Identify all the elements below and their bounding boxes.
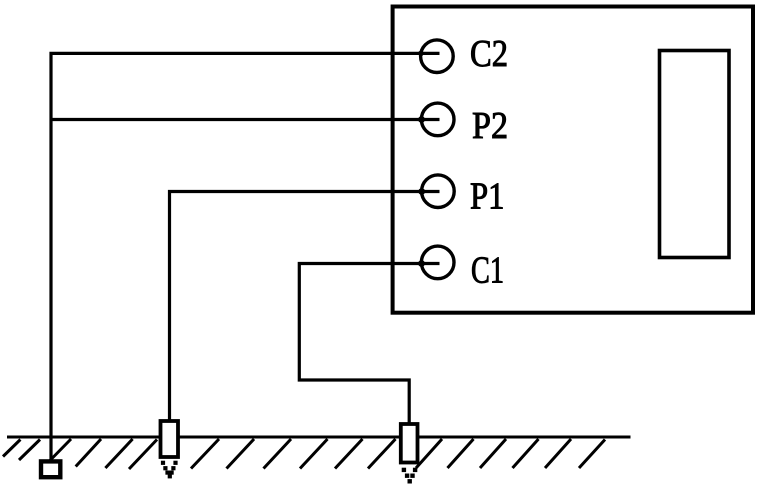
current stake body xyxy=(401,424,418,463)
svg-text:P1: P1 xyxy=(470,175,505,217)
svg-text:C2: C2 xyxy=(470,33,508,75)
terminal P1 xyxy=(422,175,455,208)
wire C2 to earth electrode xyxy=(51,53,440,460)
instrument box (earth resistance tester) xyxy=(393,7,753,313)
terminal P2 xyxy=(421,103,454,136)
wire P2 jumper to electrode lead xyxy=(51,118,440,121)
earth electrode under test (square) xyxy=(41,461,60,477)
ground hatching right group xyxy=(416,439,605,468)
potential stake body xyxy=(161,421,179,457)
potential stake tip (dotted) xyxy=(161,461,178,479)
svg-text:P2: P2 xyxy=(472,105,508,147)
display window xyxy=(660,51,730,258)
wire P1 to potential stake xyxy=(170,192,440,422)
junction dot P1 xyxy=(418,188,425,195)
ground surface line xyxy=(7,436,631,439)
current stake tip (dotted) xyxy=(402,468,418,484)
wire C1 to current stake xyxy=(299,264,439,425)
terminal C1 xyxy=(421,246,454,279)
junction dot C2 xyxy=(418,51,424,57)
junction dot C1 xyxy=(418,260,425,267)
junction dot P2 xyxy=(418,116,425,123)
ground hatching left group xyxy=(3,439,157,469)
terminal C2 xyxy=(421,40,454,73)
ground hatching middle group xyxy=(191,439,396,469)
svg-text:C1: C1 xyxy=(471,250,504,292)
